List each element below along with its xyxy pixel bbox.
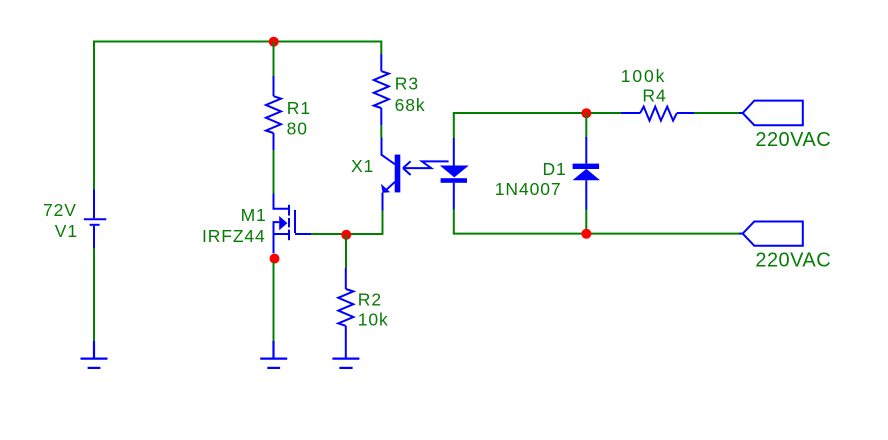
wire top dot to R1 <box>273 42 275 77</box>
ground (R2) <box>332 359 359 368</box>
svg-text:R2: R2 <box>358 289 382 309</box>
LED triangle <box>440 166 469 178</box>
diode D1 triangle <box>573 169 601 180</box>
svg-text:1N4007: 1N4007 <box>495 179 562 199</box>
svg-text:68k: 68k <box>395 95 426 115</box>
connector 220VAC bottom <box>743 222 803 246</box>
LED of optocoupler X1 <box>453 138 455 209</box>
wire stub top connector <box>739 112 743 114</box>
wire D1 to bottom rail <box>585 209 587 233</box>
svg-text:72V: 72V <box>43 200 77 220</box>
transistor M1 (MOSFET) <box>274 194 312 254</box>
diode D1 cathode bar <box>573 164 600 169</box>
svg-text:80: 80 <box>287 119 308 139</box>
wire battery to ground <box>93 248 95 342</box>
resistor R1 <box>266 76 281 150</box>
wire junction up to X1 emitter <box>382 210 384 234</box>
node junction dot D1 top <box>581 108 591 118</box>
optocoupler light arrow <box>403 161 449 175</box>
node junction dot D1 bottom <box>581 229 591 239</box>
svg-text:100k: 100k <box>621 66 667 86</box>
wire left vertical from top rail to battery <box>93 41 95 191</box>
svg-text:D1: D1 <box>543 159 567 179</box>
wire LED to bottom rail <box>453 209 455 234</box>
svg-text:V1: V1 <box>55 221 78 241</box>
wire M1 source to ground <box>273 262 275 342</box>
svg-text:X1: X1 <box>351 156 374 176</box>
wire R4 to top connector <box>694 112 739 114</box>
LED cathode bar <box>441 178 467 183</box>
svg-text:M1: M1 <box>241 205 267 225</box>
svg-text:R3: R3 <box>395 73 419 93</box>
svg-text:R1: R1 <box>287 98 311 118</box>
wire top rail right start to LED <box>453 113 455 138</box>
wire top rail <box>94 41 381 43</box>
transistor X1 base bar <box>395 155 401 193</box>
resistor R4 <box>621 107 694 121</box>
wire M1 gate to X1 emitter junction <box>311 233 383 235</box>
battery V1 <box>84 190 107 249</box>
transistor M1 body arrow <box>279 216 287 230</box>
transistor X1 phototransistor <box>382 138 396 211</box>
resistor R2 <box>338 268 353 358</box>
connector 220VAC top <box>743 101 803 126</box>
wire D1 top lead <box>585 113 587 137</box>
diode D1 <box>585 137 587 210</box>
svg-text:IRFZ44: IRFZ44 <box>202 226 266 246</box>
svg-text:220VAC: 220VAC <box>755 249 831 271</box>
resistor R3 <box>374 54 389 125</box>
svg-text:10k: 10k <box>358 310 389 330</box>
svg-text:R4: R4 <box>642 85 666 105</box>
ground (M1 source) <box>260 341 287 368</box>
ground (V1) <box>81 341 108 368</box>
wire top rail right (LED to R4) <box>453 112 621 114</box>
node junction dot gate/R2 <box>341 230 351 240</box>
svg-text:220VAC: 220VAC <box>755 129 831 151</box>
node junction dot M1 source <box>270 254 280 264</box>
transistor X1 emitter arrow <box>381 184 390 193</box>
wire bottom rail <box>453 233 740 235</box>
wire R1 to M1 drain <box>273 150 275 194</box>
wire stub bottom connector <box>739 233 743 235</box>
node junction dot top (R1/top rail) <box>269 37 279 47</box>
wire junction down to R2 <box>345 235 347 269</box>
wire R3 to X1 collector <box>380 125 382 137</box>
wire top rail to R3 <box>380 41 382 55</box>
